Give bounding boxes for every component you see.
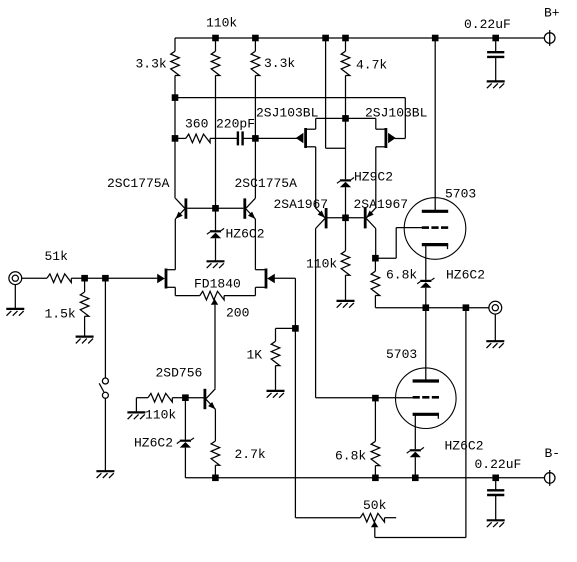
svg-text:1.5k: 1.5k	[45, 307, 76, 322]
svg-text:HZ6C2: HZ6C2	[226, 227, 265, 242]
svg-text:50k: 50k	[363, 498, 387, 513]
svg-text:1K: 1K	[247, 348, 263, 363]
svg-text:6.8k: 6.8k	[386, 268, 417, 283]
svg-text:2SC1775A: 2SC1775A	[107, 176, 170, 191]
svg-text:FD1840: FD1840	[194, 277, 241, 292]
svg-text:B+: B+	[544, 6, 560, 21]
svg-text:B-: B-	[545, 446, 561, 461]
svg-text:HZ9C2: HZ9C2	[354, 170, 393, 185]
svg-text:51k: 51k	[45, 249, 69, 264]
svg-text:5703: 5703	[445, 187, 476, 202]
svg-text:110k: 110k	[145, 408, 176, 423]
svg-text:2SD756: 2SD756	[156, 366, 203, 381]
svg-text:200: 200	[226, 306, 249, 321]
svg-text:3.3k: 3.3k	[136, 57, 167, 72]
svg-text:HZ6C2: HZ6C2	[134, 436, 173, 451]
svg-text:HZ6C2: HZ6C2	[445, 439, 484, 454]
svg-text:6.8k: 6.8k	[335, 449, 366, 464]
svg-text:110k: 110k	[206, 16, 237, 31]
svg-text:5703: 5703	[386, 347, 417, 362]
svg-text:2SC1775A: 2SC1775A	[235, 176, 298, 191]
svg-text:2SJ103BL: 2SJ103BL	[365, 106, 427, 121]
svg-text:2SJ103BL: 2SJ103BL	[256, 106, 318, 121]
svg-text:0.22uF: 0.22uF	[464, 17, 511, 32]
svg-text:2.7k: 2.7k	[235, 447, 266, 462]
svg-text:4.7k: 4.7k	[356, 58, 387, 73]
svg-text:2SA1967: 2SA1967	[274, 197, 329, 212]
svg-text:3.3k: 3.3k	[264, 56, 295, 71]
svg-text:2SA1967: 2SA1967	[354, 197, 409, 212]
svg-text:HZ6C2: HZ6C2	[446, 268, 485, 283]
svg-text:110k: 110k	[306, 257, 337, 272]
svg-text:220pF: 220pF	[216, 117, 255, 132]
svg-text:360: 360	[185, 117, 208, 132]
svg-text:0.22uF: 0.22uF	[475, 457, 522, 472]
